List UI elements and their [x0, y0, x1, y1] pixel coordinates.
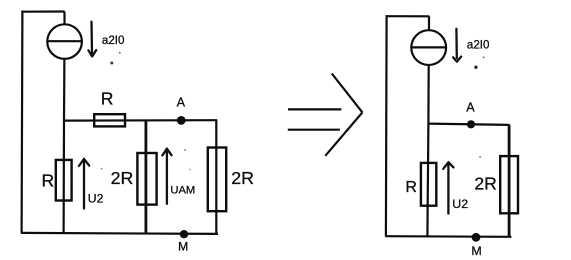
svg-text:R: R [42, 171, 55, 191]
svg-text:M: M [471, 244, 481, 258]
resistor R (right circuit) [421, 163, 436, 206]
arrow a2I0 current direction (right) [453, 29, 461, 62]
wire current source down through R branch to bottom (right) [427, 65, 428, 236]
node M (right) [472, 233, 481, 242]
svg-text:2R: 2R [111, 168, 134, 188]
svg-text:R: R [405, 179, 417, 196]
svg-text:A: A [177, 95, 186, 109]
svg-text:R: R [101, 89, 114, 109]
wire top-left horizontal [21, 10, 64, 12]
svg-text:A: A [466, 100, 475, 114]
svg-text:a2I0: a2I0 [102, 34, 125, 47]
wire top horizontal (right circuit) [386, 15, 430, 17]
node A (left) [177, 116, 186, 125]
node A (right) [467, 120, 475, 128]
resistor 2R right (left circuit) [208, 148, 226, 212]
resistor R horizontal [94, 114, 125, 126]
svg-text:U2: U2 [88, 192, 104, 206]
wire stub top wire to current source (right) [428, 16, 430, 30]
resistor R vertical (left circuit) [56, 160, 72, 201]
wire horizontal node wire (right circuit) [429, 124, 510, 125]
current source a2I0 (right) [411, 30, 446, 65]
current source a2I0 (left) [47, 24, 82, 59]
wire right branch (left circuit) [215, 120, 217, 233]
arrow UAM [162, 149, 171, 204]
resistor 2R middle [137, 153, 156, 205]
wire right branch (right circuit) [508, 124, 511, 236]
wire left rail (right circuit) [385, 15, 388, 236]
node M (left) [180, 230, 188, 238]
svg-text:U2: U2 [452, 197, 468, 211]
arrow a2I0 current direction (left) [88, 22, 96, 57]
wire bottom (right circuit) [385, 235, 511, 238]
stray ink specks (decorative) [110, 62, 113, 65]
svg-text:M: M [178, 239, 188, 253]
wire bottom (left circuit) [21, 233, 218, 234]
arrow U2 (left) [79, 159, 89, 209]
svg-text:a2I0: a2I0 [467, 39, 490, 52]
wire middle branch 2R (left circuit) [144, 121, 147, 234]
svg-text:2R: 2R [231, 168, 254, 188]
svg-text:UAM: UAM [170, 184, 195, 196]
wire stub top wire to current source [63, 12, 65, 25]
wire left rail [21, 11, 24, 234]
arrow U2 (right) [443, 162, 453, 213]
resistor 2R (right circuit) [500, 156, 518, 213]
svg-text:2R: 2R [474, 173, 497, 193]
wire current source down through R branch to bottom [62, 59, 65, 234]
implication arrow (double arrow =>) [288, 74, 363, 156]
wire horizontal node wire with R (left circuit) [64, 119, 217, 122]
